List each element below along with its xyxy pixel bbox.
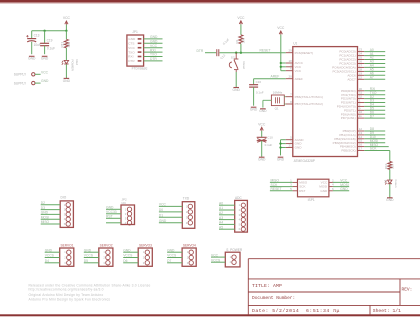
- pin 9 PD5(T1) net D5: [344, 106, 385, 112]
- pin 30 PD0(RXD) net RXI: [341, 87, 385, 93]
- pin 28 PC5(ADC5/SCL) net A5: [332, 67, 385, 73]
- junction GND pin3: [279, 142, 281, 144]
- svg-text:http://creativecommons.org/lic: http://creativecommons.org/licenses/by-s…: [29, 288, 104, 292]
- wire SERVO1 pin 2 net VCCS: [45, 254, 60, 258]
- svg-text:Sheet: 1/1: Sheet: 1/1: [373, 308, 401, 314]
- svg-text:GND: GND: [167, 248, 175, 252]
- wire S_POWER pin 1 net VCC: [211, 253, 225, 257]
- svg-text:A4: A4: [219, 221, 223, 225]
- svg-text:RXI: RXI: [128, 55, 133, 59]
- svg-text:GND: GND: [159, 219, 167, 223]
- sheet text: [373, 308, 401, 314]
- svg-text:DIO: DIO: [61, 196, 67, 200]
- wire DIO pin 5 net MISO: [41, 220, 61, 224]
- capacitor C16 0.1uF AREF: [249, 80, 264, 106]
- capacitor C19 0.1uF: [40, 31, 55, 54]
- svg-text:VCC: VCC: [277, 26, 285, 30]
- wire JP1 pin 4 net RXI: [144, 48, 163, 52]
- svg-text:DTR: DTR: [128, 59, 135, 63]
- wire JP1 pin 5 net TXO: [144, 53, 163, 57]
- wire ISP1 pin 5 net RESET: [270, 187, 298, 191]
- wire SERVO4 pin 1 net GND: [167, 248, 182, 252]
- VCC symbol above C10: [258, 122, 266, 130]
- wire AGND GND bus: [281, 140, 286, 156]
- svg-text:A2: A2: [219, 211, 223, 215]
- wire JP1 pin 2 net GND: [144, 40, 163, 44]
- svg-text:RST: RST: [106, 215, 113, 219]
- wire DIO pin 2 net D3: [41, 206, 61, 210]
- svg-text:0.1uF: 0.1uF: [265, 143, 273, 147]
- svg-text:C19: C19: [47, 38, 53, 42]
- svg-text:R1: R1: [235, 39, 239, 43]
- svg-text:DTR: DTR: [150, 57, 157, 61]
- svg-text:D1: D1: [159, 214, 163, 218]
- svg-text:16MHz: 16MHz: [273, 90, 283, 94]
- svg-text:SERVO4: SERVO4: [183, 243, 196, 247]
- svg-text:L1: L1: [383, 179, 387, 183]
- svg-text:ADC: ADC: [235, 196, 242, 200]
- pin 20 AREF: [286, 75, 303, 81]
- svg-text:GND: GND: [128, 37, 136, 41]
- wire JP2 pin 2 net VCC33: [106, 210, 121, 214]
- pin 11 PD7(AIN1) net D7: [341, 114, 385, 120]
- wire XTAL2 pin8: [284, 103, 286, 105]
- svg-text:TXO: TXO: [128, 50, 135, 54]
- wire SERVO4 pin 3 net D7: [167, 259, 182, 263]
- pin 3 GND: [286, 140, 302, 146]
- pin 32 PD2(INT0) net D2: [341, 95, 385, 101]
- svg-text:Green: Green: [394, 180, 398, 188]
- svg-text:RESET: RESET: [271, 187, 282, 191]
- license note: [29, 283, 151, 301]
- pin 17 PB5(SCK) net SCK: [341, 147, 364, 153]
- wire ISP1 pin 4 net MOSI: [329, 183, 349, 187]
- wire C12 to RESET net: [220, 52, 237, 54]
- svg-text:DTR: DTR: [197, 49, 204, 53]
- wire LED to ground: [389, 184, 391, 198]
- svg-text:PB6(XTAL1/TOSC1): PB6(XTAL1/TOSC1): [295, 95, 323, 99]
- svg-text:17: 17: [359, 147, 363, 151]
- connector ADC: [235, 196, 248, 232]
- connector SERVO4: [182, 243, 196, 266]
- connector SERVO2: [99, 243, 113, 266]
- wire R11 to power LED: [65, 48, 67, 60]
- svg-text:VCCS: VCCS: [45, 254, 55, 258]
- wire power rail horizontal: [32, 30, 67, 32]
- wire ADC pin 6 net A5: [219, 225, 235, 229]
- ground below S2: [233, 88, 241, 92]
- wire SCK to status LED: [364, 147, 390, 162]
- IC U1 ATMEGA328P body: [293, 42, 358, 164]
- wire ADC pin 2 net A1: [219, 206, 235, 210]
- pin 8 PB7(XTAL2/TOSC2): [286, 100, 323, 106]
- svg-text:GND: GND: [250, 108, 258, 112]
- svg-text:AREF: AREF: [271, 75, 280, 79]
- connector TXD: [182, 196, 195, 228]
- svg-text:SCK: SCK: [370, 147, 378, 151]
- svg-text:C13: C13: [34, 34, 40, 38]
- svg-text:MISO: MISO: [41, 220, 50, 224]
- svg-text:VCC: VCC: [258, 122, 266, 126]
- pin 13 PB1(OC1A) net D9: [339, 131, 385, 137]
- svg-text:D7: D7: [370, 114, 374, 118]
- svg-text:GND: GND: [106, 206, 114, 210]
- svg-text:PB5(SCK): PB5(SCK): [341, 149, 355, 153]
- pin 12 PB0(ICP) net D8: [343, 127, 386, 133]
- junction reset switch branch: [235, 52, 237, 54]
- junction reset pullup branch: [240, 52, 242, 54]
- pin 6 VCC: [286, 67, 302, 73]
- svg-text:Date: 5/2/2014 6:51:34 πμ: Date: 5/2/2014 6:51:34 πμ: [252, 308, 340, 314]
- wire ISP1 pin 3 net SCK: [270, 183, 298, 187]
- connector S_POWER: [225, 248, 243, 267]
- svg-text:GND: GND: [41, 57, 49, 61]
- svg-text:VCC: VCC: [63, 16, 71, 20]
- svg-text:SUPPLY: SUPPLY: [14, 73, 27, 77]
- svg-text:RESET: RESET: [260, 49, 271, 53]
- svg-text:REV:: REV:: [402, 286, 413, 292]
- connector ISP1: [298, 179, 329, 202]
- wire SERVO3 pin 2 net VCCS: [123, 254, 138, 258]
- wire resonator center to ground: [263, 100, 272, 107]
- pin 29 PC6(RESET): [286, 49, 313, 55]
- connector JP1 FTDI Basic: [127, 30, 148, 71]
- svg-text:FTDI Basic: FTDI Basic: [132, 67, 148, 71]
- svg-text:ISP1: ISP1: [308, 198, 315, 202]
- svg-text:GND: GND: [45, 248, 53, 252]
- svg-text:GND: GND: [233, 88, 241, 92]
- connector JP2: [121, 198, 135, 225]
- svg-text:GND: GND: [150, 35, 158, 39]
- pin 26 PC3(ADC3) net A3: [339, 60, 385, 66]
- svg-text:MOSI: MOSI: [41, 215, 50, 219]
- svg-text:VCCS: VCCS: [167, 254, 177, 258]
- svg-text:PD7(AIN1): PD7(AIN1): [341, 116, 356, 120]
- svg-text:21: 21: [288, 144, 292, 148]
- svg-text:SUPPLY: SUPPLY: [14, 81, 27, 85]
- svg-text:R10: R10: [384, 163, 388, 169]
- svg-text:JP1: JP1: [132, 30, 138, 34]
- junction at C19 top: [43, 30, 45, 32]
- svg-text:Red: Red: [75, 60, 79, 66]
- wire SERVO2 pin 2 net VCCS: [84, 254, 99, 258]
- svg-text:A1: A1: [219, 206, 223, 210]
- svg-text:VCC33: VCC33: [106, 210, 117, 214]
- wire SERVO2 pin 3 net D5: [84, 259, 99, 263]
- svg-text:AREF: AREF: [295, 77, 303, 81]
- svg-text:GND: GND: [259, 109, 267, 113]
- wire VCC branch vertical: [281, 35, 286, 71]
- VCC symbol above MCU power pins: [277, 26, 285, 34]
- svg-text:D3: D3: [41, 206, 45, 210]
- wire JP1 pin 3 net VCC: [144, 44, 163, 48]
- svg-text:GND: GND: [123, 248, 131, 252]
- svg-text:29: 29: [288, 49, 292, 53]
- date text: [252, 308, 340, 314]
- svg-text:PC6(RESET): PC6(RESET): [295, 51, 313, 55]
- svg-text:RXI: RXI: [150, 48, 156, 52]
- pin 21 GND: [286, 144, 302, 150]
- svg-text:TITLE: AMP: TITLE: AMP: [252, 283, 282, 289]
- power VCC symbol: [63, 16, 71, 24]
- svg-text:SERVO1: SERVO1: [61, 243, 74, 247]
- rev text: [402, 286, 413, 292]
- svg-text:VCC: VCC: [295, 69, 302, 73]
- svg-text:D2: D2: [41, 201, 45, 205]
- svg-text:TXO: TXO: [150, 53, 157, 57]
- pin 18 AVCC: [286, 59, 304, 65]
- LED POWER red: [0, 0, 79, 72]
- svg-text:Document Number:: Document Number:: [252, 295, 295, 301]
- title block frame: [248, 259, 420, 316]
- svg-text:VCC: VCC: [128, 46, 135, 50]
- wire DIO pin 1 net D2: [41, 201, 61, 205]
- wire XTAL1 pin7: [284, 96, 286, 98]
- pin 2 PD4(XCK/T0) net D4: [337, 102, 385, 108]
- svg-text:GND: GND: [41, 211, 49, 215]
- pin 19 ADC6 net A6: [347, 71, 385, 77]
- wire ADC pin 1 net A0: [219, 201, 235, 205]
- wire TXD pin 3 net D1: [159, 214, 182, 218]
- frame bottom border: [0, 314, 420, 316]
- svg-text:A5: A5: [219, 225, 223, 229]
- document number text: [252, 295, 295, 301]
- wire SERVO1 pin 1 net GND: [45, 248, 60, 252]
- svg-text:A3: A3: [219, 216, 223, 220]
- wire ADC pin 4 net A3: [219, 216, 235, 220]
- wire JP1 pin 1 net GND: [144, 35, 163, 39]
- pin 7 PB6(XTAL1/TOSC1): [286, 93, 323, 99]
- wire RESET to MCU: [236, 49, 286, 53]
- svg-text:A7: A7: [370, 76, 374, 80]
- svg-text:GND: GND: [63, 79, 71, 83]
- ground below C19: [41, 56, 49, 60]
- svg-text:GND: GND: [28, 57, 36, 61]
- wire TXD pin 4 net GND: [159, 219, 182, 223]
- svg-text:330: 330: [67, 42, 71, 48]
- svg-text:VCC: VCC: [159, 203, 167, 207]
- pin 1 PD3(INT1) net D3: [341, 99, 385, 105]
- pin 5 AGND: [286, 136, 305, 142]
- svg-text:POWER: POWER: [71, 60, 75, 72]
- junction AVCC: [280, 62, 282, 64]
- svg-text:Arduino Pro Mini Design by Spa: Arduino Pro Mini Design by Spark Fun Ele…: [29, 297, 111, 301]
- switch S2 reset: [229, 53, 246, 72]
- ground below MCU: [277, 157, 285, 161]
- wire ADC pin 5 net A4: [219, 221, 235, 225]
- svg-text:GND: GND: [258, 158, 266, 162]
- svg-text:VCC: VCC: [211, 253, 219, 257]
- ground below C13: [28, 56, 36, 60]
- wire JP2 pin 4 net nc: [106, 222, 121, 224]
- resistor R11 330: [61, 31, 71, 48]
- wire VCC to power rail: [65, 25, 67, 31]
- wire TXD pin 2 net D0: [159, 208, 182, 212]
- svg-text:10uF: 10uF: [34, 43, 41, 47]
- wire VCC to R1: [240, 24, 242, 34]
- wire S_POWER pin 2 net VCCS: [211, 258, 225, 262]
- svg-text:D5: D5: [84, 259, 88, 263]
- svg-text:GND: GND: [340, 187, 348, 191]
- wire JP2 pin 3 net RST: [106, 215, 121, 219]
- frame top border: [0, 0, 420, 4]
- ground below C10: [258, 157, 266, 161]
- net label DTR: [197, 49, 204, 53]
- svg-text:R11: R11: [61, 42, 65, 48]
- pin 31 PD1(TXD) net TXO: [341, 91, 385, 97]
- svg-text:SERVO2: SERVO2: [100, 243, 113, 247]
- wire AREF: [254, 75, 286, 85]
- svg-text:C16: C16: [256, 80, 262, 84]
- svg-text:GND: GND: [41, 79, 49, 83]
- svg-text:11: 11: [359, 114, 362, 118]
- svg-text:0.1uF: 0.1uF: [47, 47, 55, 51]
- pin 25 PC2(ADC2) net A2: [339, 56, 385, 62]
- svg-text:22: 22: [359, 75, 363, 79]
- svg-text:VCC: VCC: [41, 70, 49, 74]
- wire MISO net: [364, 143, 388, 147]
- pin 15 PB3(MOSI/OC2) net MOSI: [333, 139, 386, 145]
- svg-text:VCCS: VCCS: [123, 254, 133, 258]
- wire ISP1 pin 2 net VCC: [329, 179, 349, 183]
- svg-text:0.1uF: 0.1uF: [256, 90, 264, 94]
- wire S2 to ground: [235, 72, 237, 87]
- ground below power LED: [63, 78, 71, 82]
- svg-text:D0: D0: [159, 208, 163, 212]
- pin 27 PC4(ADC4/SDA) net A4: [332, 63, 385, 69]
- junction GND pin21: [279, 146, 281, 148]
- svg-text:ATMEGA328P: ATMEGA328P: [294, 159, 316, 163]
- wire ISP1 pin 6 net GND: [329, 187, 349, 191]
- ground below resonator: [259, 109, 267, 113]
- svg-text:GND: GND: [386, 198, 394, 202]
- SUPPLY pad VCC: [14, 70, 49, 76]
- pin 24 PC1(ADC1) net A1: [339, 52, 385, 58]
- pin 10 PD6(AIN0) net D6: [341, 110, 385, 116]
- svg-text:PB7(XTAL2/TOSC2): PB7(XTAL2/TOSC2): [295, 102, 323, 106]
- svg-text:20: 20: [288, 75, 292, 79]
- svg-text:A0: A0: [219, 201, 223, 205]
- resistor R10 330 status: [384, 161, 394, 180]
- svg-text:ADC7: ADC7: [347, 77, 356, 81]
- svg-text:GND: GND: [84, 248, 92, 252]
- svg-text:D6: D6: [123, 259, 127, 263]
- svg-text:CTS: CTS: [128, 42, 134, 46]
- svg-text:330: 330: [390, 164, 394, 169]
- svg-text:10K: 10K: [241, 38, 245, 43]
- pin 14 PB2(SS/OC1B) net D10: [334, 135, 385, 141]
- svg-text:GND: GND: [295, 146, 303, 150]
- svg-text:VCCS: VCCS: [84, 254, 94, 258]
- pin 23 PC0(ADC0) net A0: [339, 48, 385, 54]
- svg-text:TXD: TXD: [183, 196, 190, 200]
- capacitor C10 0.1uF decoupling: [257, 131, 273, 157]
- ground below status LED: [386, 198, 394, 202]
- pin 22 ADC7 net A7: [347, 75, 385, 81]
- connector SERVO1: [60, 243, 74, 266]
- svg-text:GND: GND: [150, 40, 158, 44]
- wire SERVO3 pin 3 net D6: [123, 259, 138, 263]
- ground below C16: [250, 107, 258, 111]
- title text: [252, 283, 282, 289]
- svg-text:C10: C10: [267, 135, 273, 139]
- wire DTR to C12: [205, 52, 216, 54]
- junction at R11 top: [65, 30, 67, 32]
- capacitor C13 10uF polarized: [26, 31, 41, 54]
- svg-text:SERVO3: SERVO3: [139, 243, 152, 247]
- svg-text:RST: RST: [299, 189, 305, 193]
- capacitor C12 0.1uF series: [217, 37, 230, 60]
- resonator Q1 16MHz: [271, 90, 284, 110]
- wire JP2 pin 1 net GND: [106, 206, 121, 210]
- svg-text:VCC: VCC: [237, 16, 245, 20]
- VCC symbol above R1: [237, 16, 245, 24]
- svg-text:D4: D4: [45, 259, 49, 263]
- wire TXD pin 1 net VCC: [159, 203, 182, 207]
- wire SERVO1 pin 3 net D4: [45, 259, 60, 263]
- LED STAT green: [0, 0, 398, 188]
- pin 4 VCC: [286, 63, 302, 69]
- svg-text:GND: GND: [277, 158, 285, 162]
- connector DIO: [60, 196, 73, 228]
- wire ADC pin 3 net A2: [219, 211, 235, 215]
- connector SERVO3: [138, 243, 152, 266]
- pin 16 PB4(MISO) net MISO: [340, 143, 364, 149]
- svg-text:VCCS: VCCS: [211, 258, 221, 262]
- wire DIO pin 3 net GND: [41, 211, 61, 215]
- wire ISP1 pin 1 net MISO: [270, 179, 298, 183]
- wire JP1 pin 6 net DTR: [144, 57, 163, 61]
- SUPPLY pad GND: [14, 79, 49, 85]
- wire SERVO3 pin 1 net GND: [123, 248, 138, 252]
- resistor R1 10K pullup: [235, 35, 245, 53]
- wire DIO pin 4 net MOSI: [41, 215, 61, 219]
- wire SERVO2 pin 1 net GND: [84, 248, 99, 252]
- svg-text:D7: D7: [167, 259, 171, 263]
- svg-text:Q1: Q1: [275, 106, 279, 110]
- wire LED to ground: [65, 64, 67, 78]
- svg-text:GND: GND: [320, 189, 328, 193]
- svg-text:Reset: Reset: [242, 62, 246, 70]
- svg-text:U1: U1: [293, 42, 297, 46]
- svg-text:VCC: VCC: [150, 44, 158, 48]
- wire SERVO4 pin 2 net VCCS: [167, 254, 182, 258]
- junction VCC pin4: [280, 66, 282, 68]
